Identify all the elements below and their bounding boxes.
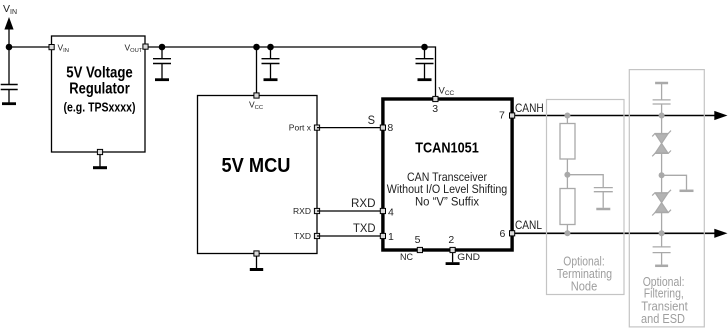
wire C6 to CANH (661, 104, 663, 116)
capacitor C5 (594, 188, 613, 192)
pin 4 square (380, 208, 385, 213)
svg-text:NC: NC (400, 251, 413, 262)
svg-text:(e.g. TPSxxxx): (e.g. TPSxxxx) (64, 99, 136, 114)
wire CANH to R1 (566, 116, 568, 124)
ground C7 (655, 253, 668, 266)
node dot CANH filter (659, 113, 665, 119)
capacitor C6 (653, 100, 671, 104)
capacitor C3 (262, 47, 280, 64)
wire TCAN pin2 to ground (452, 253, 454, 263)
node junction VIN (6, 44, 13, 51)
svg-text:CANH: CANH (515, 101, 544, 115)
capacitor C7 (653, 247, 671, 253)
TVS diode D2 (652, 190, 671, 216)
svg-text:TCAN1051: TCAN1051 (415, 139, 479, 156)
ground C4 (418, 64, 432, 80)
voltage regulator U1 (52, 36, 146, 152)
node dot C4 (421, 44, 428, 51)
pin Port x MCU (314, 125, 319, 130)
pin VOUT regulator (143, 44, 148, 49)
svg-text:TXD: TXD (353, 221, 376, 235)
wire CANH (515, 115, 716, 117)
wire D2 to CANL (661, 213, 663, 234)
svg-text:RXD: RXD (293, 206, 311, 216)
pin GND regulator (97, 149, 102, 154)
wire R1 to R2 (566, 159, 568, 189)
svg-text:RXD: RXD (351, 196, 376, 210)
ground terminal C6 top (655, 82, 668, 85)
wire regulator to ground (99, 155, 101, 167)
svg-text:CANL: CANL (515, 218, 542, 232)
wire R2 to CANL (566, 225, 568, 234)
pin 7 square (510, 113, 515, 118)
wire TXD (317, 235, 382, 237)
pin VCC MCU (254, 93, 259, 98)
ground C3 (264, 64, 278, 80)
node dot CANL terminating (564, 230, 570, 236)
pin 2 square (450, 247, 455, 252)
ground filter mid (680, 190, 694, 193)
pin 8 square (380, 125, 385, 130)
node dot MCU VCC rail (253, 44, 260, 51)
wire VIN vertical (8, 29, 10, 85)
node dot CANH terminating (564, 113, 570, 119)
svg-text:3: 3 (432, 103, 438, 115)
svg-text:5V Voltage: 5V Voltage (66, 65, 133, 82)
filtering caption (641, 274, 688, 326)
svg-text:4: 4 (388, 207, 394, 219)
pin RXD MCU (314, 208, 319, 213)
ground TCAN (446, 262, 460, 265)
arrow CANL (714, 229, 727, 238)
terminating node caption (557, 253, 612, 293)
optional filtering box (629, 70, 704, 327)
svg-text:7: 7 (499, 110, 505, 122)
svg-text:5V MCU: 5V MCU (222, 154, 291, 177)
wire mid node to ground (662, 175, 687, 189)
svg-text:8: 8 (387, 122, 393, 134)
svg-text:2: 2 (448, 234, 454, 246)
ground C2 (155, 64, 169, 80)
wire CANH to TVS D1 (661, 116, 663, 134)
wire D1 to mid node (661, 153, 663, 192)
wire terminal to C6 (661, 83, 663, 100)
pin GND MCU (254, 251, 259, 256)
pin 1 square (380, 233, 385, 238)
pin TXD MCU (314, 233, 319, 238)
svg-text:TXD: TXD (294, 231, 311, 241)
wire VIN to regulator (9, 46, 50, 48)
ground below C1 (2, 90, 16, 104)
pin VIN regulator (49, 45, 54, 50)
optional terminating node box (547, 100, 625, 295)
ground regulator (93, 166, 107, 169)
svg-text:1: 1 (388, 231, 394, 243)
TVS diode D1 (652, 131, 671, 157)
wire split node to C5 (567, 175, 603, 188)
pin 5 square (417, 247, 422, 252)
svg-text:and ESD: and ESD (641, 311, 685, 326)
node dot split termination (564, 172, 570, 178)
svg-text:6: 6 (500, 228, 506, 240)
wire CANL to C7 (661, 233, 663, 246)
wire RXD (317, 210, 382, 212)
wire MCU to ground (256, 256, 258, 268)
wire 5V rail (148, 47, 436, 97)
ground MCU (250, 268, 263, 271)
capacitor C2 (153, 47, 171, 64)
ground C5 (596, 192, 610, 209)
TCAN description label (387, 170, 508, 208)
svg-text:GND: GND (457, 252, 480, 263)
capacitor C1 (1, 85, 18, 90)
capacitor C4 (416, 47, 434, 64)
VIN arrow (4, 17, 13, 30)
regulator name label (64, 65, 136, 115)
arrow CANH (714, 111, 727, 120)
node dot CANL filter (659, 230, 665, 236)
wire rail to MCU VCC (256, 47, 258, 94)
wire S (317, 127, 382, 129)
node dot C3 (267, 44, 274, 51)
pin 6 square (510, 231, 515, 236)
svg-text:No “V” Suffix: No “V” Suffix (415, 194, 479, 208)
node dot C2 (159, 44, 166, 51)
MCU U2 (198, 96, 318, 254)
svg-text:Node: Node (571, 278, 598, 293)
svg-text:5: 5 (415, 234, 421, 246)
resistor R1 (560, 124, 575, 160)
svg-text:S: S (368, 113, 375, 127)
svg-text:Regulator: Regulator (69, 80, 130, 97)
pin 3 square (433, 96, 438, 101)
transceiver U3 TCAN1051 (383, 99, 512, 250)
resistor R2 (560, 189, 575, 225)
node dot filter mid (659, 172, 665, 178)
wire CANL (515, 232, 716, 234)
svg-text:Port x: Port x (289, 123, 312, 133)
